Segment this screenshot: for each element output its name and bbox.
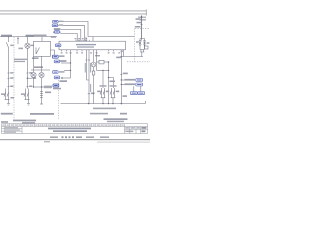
wire drop cluster1	[102, 70, 104, 88]
top rule 2	[0, 13, 147, 15]
bus end tick	[144, 101, 146, 104]
table mid rule	[2, 126, 148, 128]
label U1 name	[76, 44, 96, 45]
section divider dashed left	[13, 37, 15, 120]
label K4 r	[116, 91, 119, 93]
lamp E3	[39, 72, 44, 77]
label lamp rail	[34, 66, 43, 68]
label branch	[110, 81, 116, 83]
wire tap 30b	[64, 69, 71, 71]
label wire end 15A	[51, 36, 56, 38]
ruler numbers smudge	[3, 125, 124, 126]
pin number smudges	[61, 52, 121, 53]
relay K4 contacts	[112, 88, 115, 98]
label feed c	[135, 26, 141, 28]
relay K1 contacts	[6, 89, 9, 100]
label between columns	[14, 59, 27, 60]
chip link R low b	[138, 92, 145, 95]
left subtable rows	[2, 129, 23, 131]
chip link R low a	[131, 92, 138, 95]
label Y2	[147, 42, 150, 44]
wire stubs to lower chips	[134, 86, 141, 91]
label feed b	[137, 22, 142, 24]
right block row	[125, 129, 148, 131]
wire pin 121 drop	[120, 51, 122, 103]
wire tap 31 arrow	[63, 77, 71, 79]
label S1 col a	[10, 77, 13, 79]
wire box feed	[41, 37, 43, 42]
U1 bottom pin ticks	[62, 50, 122, 52]
junction dots lamp bottoms	[33, 86, 34, 87]
junction dot E1 col	[27, 78, 28, 79]
wire row 70	[97, 69, 109, 71]
wire code text col a	[85, 63, 86, 73]
wire right mid rail	[121, 56, 143, 58]
label tie	[44, 86, 52, 89]
wire injectors down	[140, 45, 145, 49]
label after chip row1	[59, 21, 64, 22]
label S1 col b	[10, 86, 13, 88]
connector B2	[92, 71, 95, 75]
label after chip row2	[59, 24, 64, 25]
label E1 col pin	[29, 72, 32, 74]
right block cols	[125, 127, 141, 134]
chip link R row2	[136, 83, 143, 86]
tick S1 col pin	[8, 72, 10, 74]
switch S2 lever	[36, 48, 40, 55]
label above K3	[100, 85, 107, 87]
bottom rule 1	[0, 139, 150, 140]
label under bus 3	[120, 113, 127, 115]
label right of E1	[31, 45, 34, 47]
chip column mid: chip M7	[53, 84, 59, 87]
resistor R1	[97, 61, 100, 63]
label under box	[32, 57, 39, 59]
motor M1	[91, 62, 96, 67]
connector comb C2	[41, 90, 43, 104]
label under bus mid	[30, 113, 54, 115]
label chip row 2	[125, 83, 136, 85]
wire pair merge	[87, 80, 90, 104]
label K3 l	[97, 91, 100, 93]
right block cell texts	[125, 127, 129, 128]
nav row icons	[50, 136, 58, 138]
junction dot A	[8, 36, 9, 37]
wire box pin to rail	[123, 50, 125, 57]
junction dots on bus	[88, 103, 89, 104]
wire chip row 2	[121, 84, 124, 86]
ground G2	[27, 104, 30, 106]
symbol under cluster	[140, 50, 144, 53]
label S1 col pin	[10, 72, 13, 74]
label M4 text	[61, 60, 66, 61]
label C3	[91, 93, 95, 95]
wire column 108	[108, 62, 110, 104]
left subtable text	[5, 127, 18, 128]
wire drop E3	[41, 56, 43, 72]
relay K2 contacts	[26, 89, 29, 100]
label E1 col b	[29, 86, 32, 88]
wire injector feed split	[140, 16, 145, 41]
label M7 text	[53, 88, 61, 90]
wire cluster to rail	[141, 52, 143, 57]
label (15)	[26, 35, 35, 37]
bottom rule 2	[97, 142, 150, 143]
label right 95	[123, 95, 128, 97]
chip link R row1	[136, 79, 143, 82]
tick E1 col pin	[27, 72, 29, 74]
label rail 30	[123, 73, 128, 75]
chip link L1	[53, 20, 59, 23]
injector Y1	[139, 41, 142, 46]
wire lamp feed	[27, 37, 29, 43]
wire chip row 1	[121, 79, 124, 81]
bottom tiny text	[44, 141, 50, 142]
wire code text col c	[90, 84, 91, 92]
label E1 col a	[33, 77, 37, 79]
chip column mid: chip M4	[54, 60, 60, 63]
centre title text line2	[53, 130, 87, 132]
label title left small	[1, 121, 8, 123]
label title left2	[13, 120, 36, 122]
left subtable col	[4, 127, 22, 134]
ground G1	[7, 104, 10, 106]
label text left feed	[1, 35, 12, 37]
wire tie lamps	[34, 86, 45, 88]
label 121	[116, 57, 121, 59]
label tap 30a	[60, 60, 67, 62]
table left edge	[1, 124, 3, 134]
wire R1 out	[104, 61, 109, 63]
tick S1 col b	[8, 85, 10, 87]
tick feed	[140, 23, 142, 25]
wire pin 96 drop	[96, 51, 98, 70]
pin marks above ECU top	[75, 38, 88, 39]
U1 top pin ticks	[76, 40, 89, 41]
wire drop E2	[33, 56, 35, 72]
label under bus left	[1, 113, 13, 115]
label pin motor	[95, 55, 100, 56]
label above K4	[110, 85, 117, 87]
label tap 31	[60, 80, 68, 82]
label feed a	[136, 18, 141, 20]
label C2	[45, 92, 51, 94]
wire tap 30a	[61, 62, 71, 64]
tick marks pair	[86, 59, 91, 61]
wire vertical S1 drop	[8, 37, 10, 42]
section divider dashed mid	[57, 80, 59, 120]
label title left3	[22, 122, 35, 124]
label Y1	[136, 41, 139, 43]
relay K3 contacts	[102, 88, 105, 98]
wire stubs into U1 top	[86, 37, 93, 42]
tick E1 col a	[27, 77, 29, 79]
bus wire row4	[61, 33, 78, 41]
wire code text col b	[90, 63, 91, 73]
wire feed bus left, node 30	[0, 36, 57, 38]
label box pin9	[121, 51, 123, 52]
component box Y3	[145, 46, 148, 49]
table top rule	[2, 123, 148, 125]
label stub	[18, 48, 23, 50]
lamp E1	[25, 43, 30, 48]
switch S1	[6, 42, 8, 47]
ground bus 31	[61, 103, 146, 105]
label right of S1	[10, 45, 13, 47]
chip link L2	[52, 24, 58, 27]
top right edge tick	[145, 10, 147, 16]
label K1 left	[1, 93, 4, 95]
lamp E2	[31, 72, 36, 77]
connector tick C3	[88, 93, 91, 95]
chip column mid: chip M3	[52, 55, 58, 58]
label K3 r	[106, 91, 109, 93]
wire feed from top	[141, 16, 143, 41]
ground G3	[40, 103, 43, 105]
ruler ticks	[6, 124, 125, 127]
bus wire row3	[61, 29, 81, 41]
label under bus 1	[93, 108, 116, 110]
label bus row3	[54, 28, 61, 30]
label under bus 2	[90, 113, 108, 115]
label title right block caption	[104, 118, 128, 120]
stub connector x18	[17, 37, 19, 44]
label M3 text	[59, 55, 65, 57]
wire pin to motor	[93, 51, 95, 62]
dashed border right top	[135, 27, 150, 29]
tick 121	[120, 74, 122, 76]
label K1 pins	[11, 97, 15, 99]
wire branch 77	[109, 78, 114, 89]
wire stub E1 col	[28, 77, 33, 79]
table right edge	[147, 124, 149, 134]
label wire 30 center	[34, 35, 47, 37]
wire S1 to relay K1	[8, 48, 10, 89]
label bus row4	[53, 31, 60, 33]
wire pair U1 to ground	[87, 51, 90, 80]
chip column mid: chip M2	[55, 44, 61, 47]
top right tiny caption	[138, 17, 146, 19]
top rule 1	[0, 10, 147, 12]
label M5 text	[59, 71, 65, 72]
title table frame	[2, 124, 148, 134]
centre title text line1	[48, 128, 91, 130]
chip column mid: chip M1	[55, 31, 60, 34]
label chip row 1	[125, 79, 136, 81]
label K2 left	[21, 93, 24, 95]
junction dots rail	[121, 79, 122, 80]
bus wire row1	[59, 21, 135, 36]
chip column mid: chip M5	[53, 71, 59, 74]
wire box out right	[51, 50, 55, 56]
table bottom rule	[2, 133, 148, 135]
wire supply column	[70, 51, 72, 78]
dashed border right vert	[134, 28, 136, 62]
switch unit S2 box	[34, 41, 51, 56]
arrow head top	[141, 15, 143, 17]
tick S1 col a	[8, 77, 10, 79]
dashed border right bottom	[127, 61, 150, 63]
wire lamp rail	[31, 69, 50, 71]
ECU U1 box	[59, 41, 126, 50]
tick E1 col b	[27, 85, 29, 87]
chip column mid: chip M6	[54, 76, 60, 79]
bus wire row2	[58, 25, 84, 41]
injector Y2	[143, 41, 146, 46]
